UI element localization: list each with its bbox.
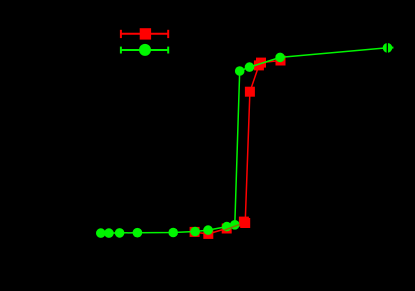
green circle G11 bbox=[245, 62, 255, 72]
legend green error-bar line bbox=[121, 47, 169, 54]
green circle G13 last point bbox=[383, 43, 393, 53]
green circle G5 bbox=[168, 228, 178, 238]
green circle G3 bbox=[115, 228, 125, 238]
green circle G8 bbox=[222, 222, 232, 232]
green circle G4 bbox=[133, 228, 143, 238]
green circle G1 bbox=[96, 228, 106, 238]
green circle G10 bbox=[235, 66, 245, 76]
red square R5 bbox=[245, 87, 255, 97]
green circle G12 bbox=[275, 53, 285, 63]
red square R1 bbox=[190, 227, 200, 237]
red square R3 bbox=[222, 224, 232, 234]
legend red square marker bbox=[140, 28, 151, 39]
green circle G7 bbox=[203, 225, 213, 235]
red series line bbox=[195, 61, 281, 234]
red square R4b bbox=[240, 218, 250, 228]
error bar seam on G13 bbox=[386, 42, 388, 53]
green series line bbox=[101, 48, 388, 233]
legend green circle marker bbox=[139, 44, 151, 56]
green circle G2 bbox=[104, 228, 114, 238]
green circle G9 bbox=[230, 220, 240, 230]
red square R8 bbox=[276, 56, 286, 66]
red square R4a bbox=[239, 217, 249, 227]
red square R2 bbox=[203, 229, 213, 239]
red square R7 bbox=[256, 58, 266, 68]
red line crossing over green blob bbox=[224, 224, 241, 230]
red square R6 bbox=[254, 60, 264, 70]
error bar stub right of G13 bbox=[392, 47, 394, 49]
green circle G6 bbox=[190, 227, 200, 237]
legend red error-bar line bbox=[121, 30, 169, 38]
